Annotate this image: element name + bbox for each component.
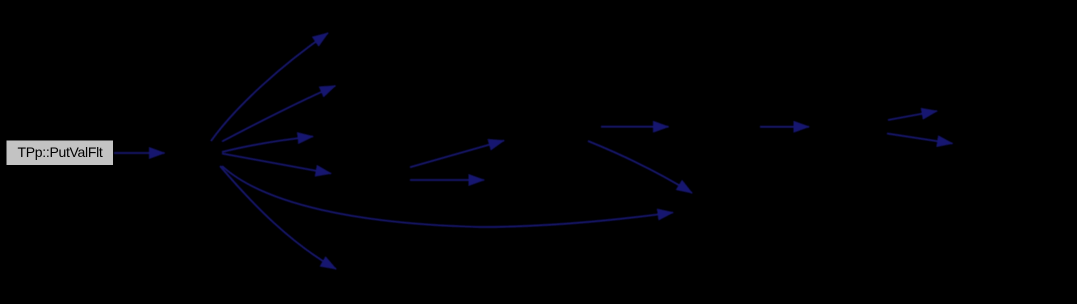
wire N3d out 1 (to node N4) xyxy=(410,141,504,168)
wire N6 out (to node N8) xyxy=(760,126,809,128)
wire N2 fan edge b xyxy=(222,86,335,142)
wire N2 fan edge e (bottom curve) xyxy=(220,166,336,269)
wire N2 long curve f (to node N7) xyxy=(222,166,673,227)
wire N4 out 1 (to node N6) xyxy=(601,126,669,128)
wire N4 out 2 (to node N7) xyxy=(588,141,692,193)
wire N1 to N2 xyxy=(114,152,165,154)
wire N8 out 1 (to node N9) xyxy=(888,111,937,120)
wire N3d out 2 (to node N5) xyxy=(410,179,484,181)
svg-text:TPp::PutValFlt: TPp::PutValFlt xyxy=(17,144,102,160)
wire N8 out 2 (to node N10) xyxy=(887,134,953,144)
node N1 TPp::PutValFlt xyxy=(6,140,114,166)
wire N2 fan edge a (top curve) xyxy=(211,33,328,141)
wire N2 fan edge d (to node N3d) xyxy=(222,154,331,174)
wire N2 fan edge c xyxy=(222,137,313,153)
